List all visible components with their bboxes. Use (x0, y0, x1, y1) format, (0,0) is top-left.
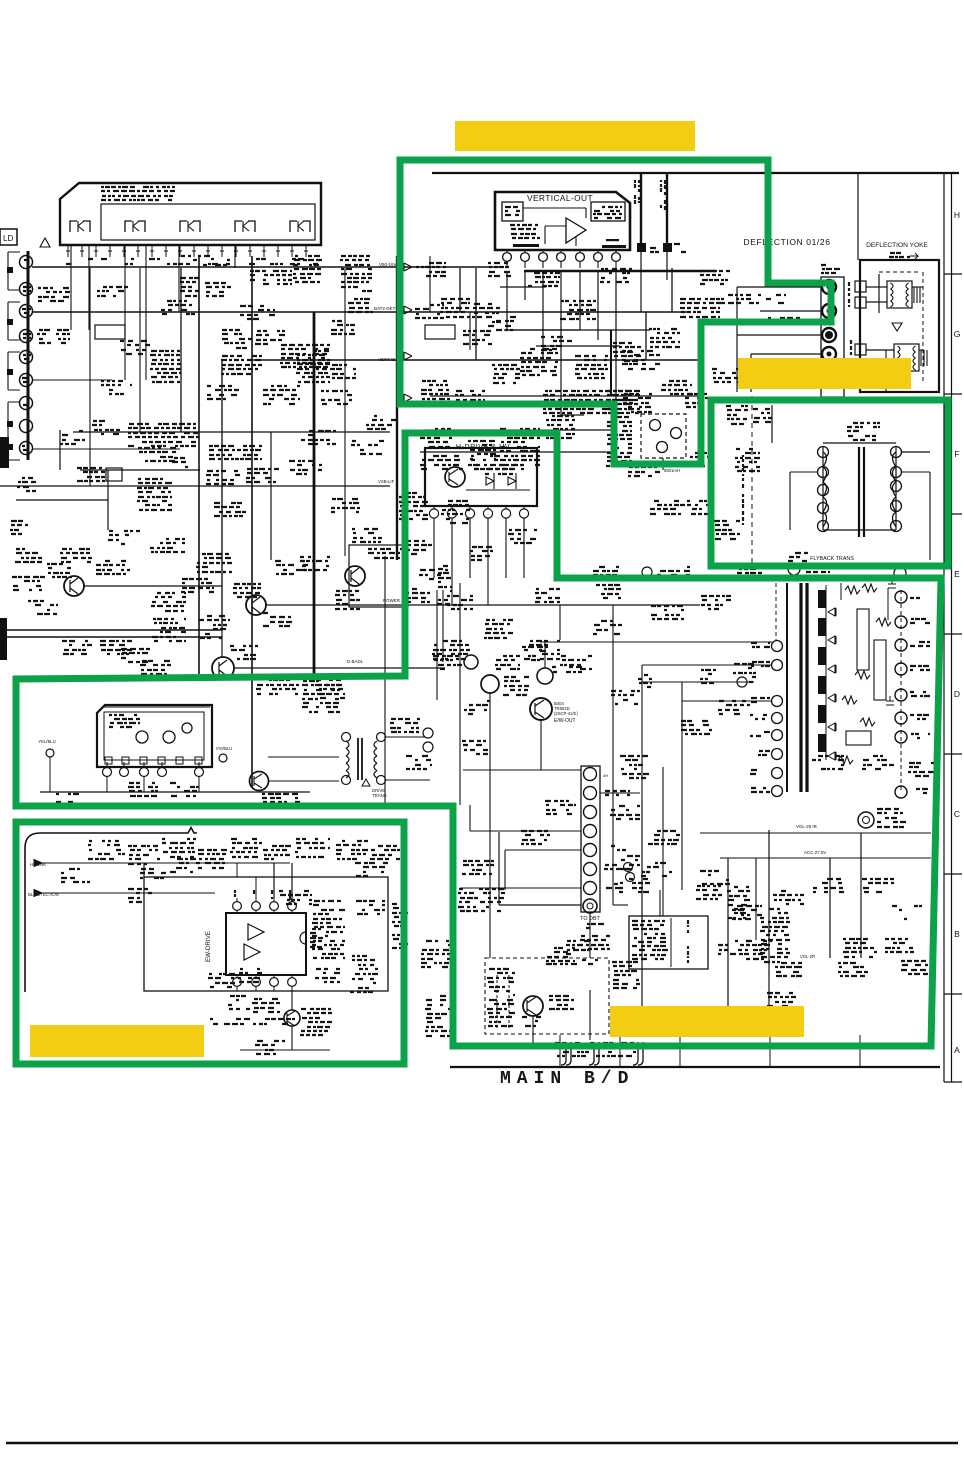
svg-text:EW-DRIVE: EW-DRIVE (205, 931, 212, 962)
svg-text:VOL-2R: VOL-2R (800, 954, 815, 959)
svg-text:F: F (954, 449, 959, 459)
svg-text:VSB-LIF: VSB-LIF (378, 479, 395, 484)
svg-text:VERT-BLK: VERT-BLK (378, 357, 400, 362)
svg-text:DEFLECTION YOKE: DEFLECTION YOKE (866, 242, 928, 249)
svg-text:VOL-25 IR: VOL-25 IR (796, 824, 817, 829)
svg-text:C: C (954, 809, 960, 819)
svg-text:LD: LD (3, 234, 13, 243)
svg-text:4H: 4H (603, 773, 608, 778)
svg-text:BAT2-DET: BAT2-DET (374, 306, 396, 311)
svg-text:D.BADL: D.BADL (347, 659, 364, 664)
svg-text:D: D (954, 689, 960, 699)
svg-text:H: H (954, 210, 960, 220)
svg-text:VIO/BLU: VIO/BLU (216, 746, 233, 751)
svg-text:E: E (954, 569, 960, 579)
svg-text:YEL/BLU: YEL/BLU (38, 739, 55, 744)
svg-text:A: A (954, 1045, 960, 1055)
svg-text:(2SCP-41/E): (2SCP-41/E) (554, 711, 578, 716)
svg-text:FLYBACK TRANS: FLYBACK TRANS (810, 556, 854, 562)
svg-text:H-DRIVE & HV: H-DRIVE & HV (456, 442, 510, 451)
svg-text:MAIN B/D: MAIN B/D (500, 1069, 634, 1089)
svg-text:E/W-OUT: E/W-OUT (554, 718, 576, 724)
svg-text:ACC-27.5V: ACC-27.5V (804, 850, 826, 855)
svg-text:B: B (954, 929, 960, 939)
svg-text:DEFLECTION 01/26: DEFLECTION 01/26 (743, 237, 830, 247)
svg-text:TRANS: TRANS (372, 793, 387, 798)
svg-text:5501mH: 5501mH (664, 468, 680, 473)
svg-text:V50-16V: V50-16V (379, 262, 397, 267)
svg-text:POWER: POWER (383, 598, 401, 603)
svg-text:G: G (954, 329, 961, 339)
svg-text:VERTICAL-OUT: VERTICAL-OUT (527, 193, 593, 203)
